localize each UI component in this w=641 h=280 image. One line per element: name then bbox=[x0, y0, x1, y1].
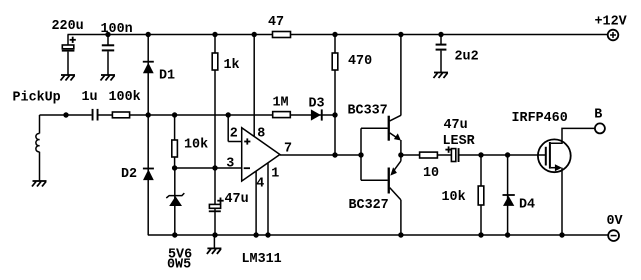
svg-text:2u2: 2u2 bbox=[455, 50, 479, 65]
svg-text:10k: 10k bbox=[442, 190, 466, 205]
svg-text:1k: 1k bbox=[224, 58, 240, 73]
svg-text:4: 4 bbox=[256, 177, 264, 192]
svg-text:470: 470 bbox=[348, 54, 372, 69]
svg-text:BC327: BC327 bbox=[349, 198, 389, 213]
svg-text:BC337: BC337 bbox=[348, 104, 388, 119]
svg-text:220u: 220u bbox=[52, 19, 84, 34]
svg-text:3: 3 bbox=[226, 157, 234, 172]
svg-text:10: 10 bbox=[423, 166, 439, 181]
svg-text:B: B bbox=[594, 108, 602, 123]
svg-text:8: 8 bbox=[257, 127, 265, 142]
svg-text:10k: 10k bbox=[184, 138, 208, 153]
svg-text:47u: 47u bbox=[225, 192, 249, 207]
svg-text:1M: 1M bbox=[273, 96, 289, 111]
svg-text:D4: D4 bbox=[519, 198, 535, 213]
svg-text:7: 7 bbox=[284, 142, 292, 157]
svg-text:1u: 1u bbox=[82, 90, 98, 105]
svg-text:D3: D3 bbox=[309, 97, 325, 112]
svg-text:2: 2 bbox=[230, 127, 238, 142]
svg-text:+12V: +12V bbox=[595, 15, 628, 30]
svg-text:47: 47 bbox=[268, 15, 284, 30]
svg-text:IRFP460: IRFP460 bbox=[512, 111, 568, 126]
svg-text:100k: 100k bbox=[109, 90, 141, 105]
svg-text:0W5: 0W5 bbox=[167, 258, 191, 273]
svg-text:PickUp: PickUp bbox=[13, 91, 61, 106]
svg-text:D2: D2 bbox=[121, 167, 137, 182]
svg-text:LESR: LESR bbox=[443, 134, 476, 149]
svg-text:LM311: LM311 bbox=[242, 252, 282, 267]
svg-text:0V: 0V bbox=[607, 214, 624, 229]
svg-text:47u: 47u bbox=[444, 118, 468, 133]
svg-text:D1: D1 bbox=[159, 69, 175, 84]
svg-text:1: 1 bbox=[271, 167, 279, 182]
